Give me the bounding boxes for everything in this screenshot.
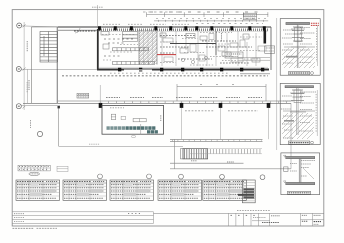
red reference line <box>157 54 176 56</box>
column stubs <box>182 108 269 139</box>
grid bubble B <box>16 104 21 109</box>
left dimension chain <box>23 22 25 110</box>
shop room rectangle <box>102 105 164 134</box>
inner wall line bottom <box>99 66 268 68</box>
scale sheet cells <box>301 213 324 226</box>
revision marks <box>128 213 140 215</box>
fixture circles <box>181 58 184 61</box>
beam columns <box>99 103 271 108</box>
dim labels near steps <box>191 160 197 162</box>
detail 3 left square <box>284 167 288 171</box>
grid line C <box>21 68 97 70</box>
revision table <box>12 212 153 224</box>
detail 2 ceiling bar <box>285 86 314 88</box>
grid bubble 4 <box>37 131 42 136</box>
tiny mark below rect <box>132 136 135 137</box>
label box upper right <box>244 13 257 20</box>
top dimension line B <box>154 20 268 22</box>
stairwell wall <box>56 27 58 103</box>
fixture tables <box>163 34 266 63</box>
schedule bubbles <box>98 174 265 180</box>
inner wall line top <box>99 30 268 32</box>
fixture notes rows <box>160 36 252 64</box>
dark pier <box>264 30 267 44</box>
detail box 1 <box>280 19 320 76</box>
long beam lines <box>58 100 291 102</box>
legend small box <box>57 166 68 171</box>
schedule box 5 <box>203 180 247 200</box>
lower dim line <box>177 84 266 101</box>
ground line 1 <box>170 162 244 164</box>
detail 3 top slab <box>286 156 315 158</box>
canopy lines <box>170 138 263 140</box>
firm name <box>271 215 280 217</box>
detail 2 cross ties <box>290 92 305 94</box>
mid wall <box>97 69 269 71</box>
interior partition tick <box>140 124 142 134</box>
detail 1 cross ties <box>291 28 305 30</box>
grid tick above wall <box>97 5 99 26</box>
small marks center <box>121 116 125 119</box>
mid wall columns <box>118 68 264 72</box>
revision row headers <box>14 214 24 222</box>
corridor partition wall <box>170 43 216 45</box>
east wing edge <box>290 103 292 169</box>
title block top line <box>154 212 324 214</box>
center double box <box>133 119 146 122</box>
corridor lines <box>238 57 270 59</box>
left dim line <box>26 70 28 104</box>
detail 1 ceiling bar <box>286 22 310 24</box>
detail 2 mullion <box>296 88 298 135</box>
west return line <box>174 139 176 169</box>
left small dimensions <box>143 11 182 13</box>
schedule box 3 <box>110 180 154 200</box>
project name <box>262 222 279 224</box>
stair block <box>40 32 58 63</box>
hatch zone borders <box>138 30 140 65</box>
finish table right <box>238 180 255 203</box>
shop west wall <box>97 29 99 69</box>
grid line B <box>21 105 60 107</box>
text row above wall right part <box>196 23 263 25</box>
fixture notes extra <box>160 33 262 66</box>
west wing outline <box>58 107 60 146</box>
scale text <box>302 214 308 216</box>
detail 2 center cluster <box>291 90 304 101</box>
mid wall thin stretch <box>124 69 152 71</box>
detail 1 dim line <box>317 25 319 66</box>
sidewalk texture strip <box>190 148 262 150</box>
partition line east <box>276 18 278 150</box>
ground line 2 <box>170 168 291 170</box>
detail 1 mullion <box>296 25 298 68</box>
company cell divider <box>269 213 271 226</box>
labels row above long beam <box>106 97 262 99</box>
detail 3 labels <box>290 161 315 177</box>
legend oval label <box>29 172 40 175</box>
detail 2 sill bar <box>284 120 294 122</box>
copyright note <box>13 227 35 229</box>
detail 2 mid divider <box>283 110 315 112</box>
cafe label box <box>225 52 243 58</box>
dimension numbers row A <box>150 11 262 13</box>
text row above wall left part <box>103 23 189 25</box>
pier label box <box>265 46 275 53</box>
entrance steps block <box>181 149 208 159</box>
detail 2 title <box>289 141 310 144</box>
hatched floor zone <box>139 30 157 65</box>
door arc left room <box>75 28 80 33</box>
schedule box 1 <box>16 180 60 200</box>
detail 3 title <box>288 191 311 194</box>
shop name text line1 <box>107 126 156 130</box>
small label box left <box>77 93 89 98</box>
detail 3 post <box>298 159 300 183</box>
shelf row 1 <box>113 48 149 51</box>
fixture rects <box>101 32 260 63</box>
stamp cells <box>229 213 270 226</box>
canopy ticks <box>172 140 262 142</box>
detail 3 bottom slab <box>286 182 315 184</box>
east wall <box>270 27 272 70</box>
detail 2 labels <box>281 92 316 138</box>
detail 1 sill bar <box>286 56 298 58</box>
grid line P <box>22 25 58 28</box>
top dimension line A <box>147 12 269 17</box>
detail 1 hatch <box>282 48 315 68</box>
detail 2 dim line <box>316 90 318 136</box>
exterior top wall <box>58 26 271 28</box>
schedule box 4 <box>158 180 202 200</box>
dimension text row below mid wall <box>62 75 268 77</box>
top wall columns <box>98 26 266 30</box>
stair left wall <box>31 27 33 103</box>
legend grid table <box>18 165 50 171</box>
detail 2 hatch <box>282 113 314 139</box>
room label text <box>74 30 96 32</box>
detail 1 labels <box>282 28 315 64</box>
detail 1 title <box>289 72 310 75</box>
right marks <box>160 115 162 122</box>
shop interior notes <box>104 38 134 40</box>
note above title block <box>237 209 270 211</box>
rotated dim text east <box>221 33 223 42</box>
stacked cells left <box>111 114 115 119</box>
grid bubble P <box>17 23 22 28</box>
detail box 2 <box>280 83 320 144</box>
detail 1 mid divider <box>284 46 315 48</box>
detail 1 center cluster <box>292 27 304 41</box>
detail 1 red note <box>311 22 319 24</box>
shelf row 2 <box>113 62 155 65</box>
fixtures east zone <box>162 31 256 66</box>
schedule box 2 <box>63 180 107 200</box>
detail 3 level marks <box>284 155 286 157</box>
grid bubble C <box>16 67 21 72</box>
left dim for shop rect <box>99 85 101 103</box>
detail box 3 <box>281 153 320 195</box>
stamp letters <box>231 214 258 216</box>
shop name text line2 <box>147 130 158 133</box>
notes between columns <box>185 110 214 112</box>
detail 3 leader <box>303 168 314 179</box>
